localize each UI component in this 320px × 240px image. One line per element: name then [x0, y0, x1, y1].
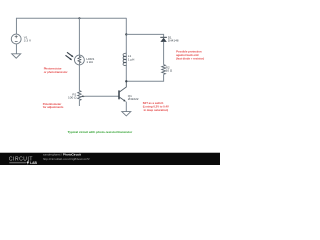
red note protection — [176, 50, 204, 61]
svg-text:xandergharst / PhotoCircuit: xandergharst / PhotoCircuit — [43, 153, 81, 157]
svg-text:Typical circuit with photo-res: Typical circuit with photo-resistor/tran… — [68, 130, 133, 134]
svg-text:in deep saturation): in deep saturation) — [144, 108, 169, 112]
label L1 value — [128, 54, 135, 61]
svg-text:or phototransistor: or phototransistor — [44, 70, 69, 74]
svg-text:3.3 V: 3.3 V — [24, 39, 32, 43]
red note potentiometer — [43, 102, 64, 109]
label LDR1 value — [86, 57, 94, 64]
svg-text:against back emf.: against back emf. — [176, 53, 199, 57]
svg-text:2N2222: 2N2222 — [128, 97, 139, 101]
svg-text:1 kΩ: 1 kΩ — [86, 60, 93, 64]
red note photoresistor — [44, 67, 69, 74]
wire V1 bottom stem — [15, 44, 17, 54]
svg-text:1 µH: 1 µH — [128, 57, 135, 61]
wire base — [85, 95, 119, 97]
red note BJT switch — [143, 101, 169, 112]
potentiometer R1 — [78, 91, 85, 101]
label D1 value — [168, 35, 179, 42]
svg-text:for adjustments: for adjustments — [43, 105, 64, 109]
wire V1 top stem — [15, 18, 17, 34]
svg-text:http://circuitlab.com/c/tg84vw: http://circuitlab.com/c/tg84vwnxm5/ — [43, 157, 90, 161]
inductor L1 — [123, 53, 126, 81]
label R2 value — [166, 66, 173, 73]
svg-text:BJT as a switch: BJT as a switch — [143, 101, 164, 105]
ground under Q1 emitter — [122, 112, 131, 116]
svg-text:1N4148: 1N4148 — [168, 38, 179, 42]
wire to diode — [126, 34, 163, 37]
node junction top rail / LDR branch — [78, 17, 80, 19]
CircuitLab logo — [9, 157, 38, 165]
wire LDR top stem — [78, 18, 80, 55]
diode D1 — [160, 37, 167, 42]
footer bar — [0, 151, 220, 154]
wire R1 bottom stub — [78, 100, 80, 106]
resistor R2 — [162, 65, 166, 75]
svg-text:100 Ω: 100 Ω — [68, 96, 77, 100]
transistor Q1 — [119, 81, 126, 111]
svg-text:LAB: LAB — [30, 161, 37, 165]
ground under V1 — [12, 54, 21, 58]
label Q1 value — [128, 94, 139, 101]
photoresistor LDR1 — [75, 55, 85, 65]
svg-text:(Losing 0.2V to 0.4V: (Losing 0.2V to 0.4V — [143, 105, 169, 109]
node junction collector / R2 — [125, 80, 127, 82]
svg-text:Possible protection: Possible protection — [176, 50, 202, 54]
label R1 value — [68, 92, 77, 99]
LDR light arrows — [66, 52, 74, 60]
label V1 value — [24, 35, 32, 42]
svg-text:Photoresistor: Photoresistor — [44, 67, 63, 71]
wire diode to R2 — [163, 42, 165, 65]
svg-text:10 Ω: 10 Ω — [166, 69, 173, 73]
svg-text:(fast diode + resistor): (fast diode + resistor) — [176, 57, 204, 61]
footer credit text — [43, 153, 90, 161]
wire top rail — [16, 17, 126, 19]
wire R2 bottom to collector node — [126, 74, 163, 81]
voltage source V1 — [11, 34, 21, 44]
wire LDR bottom stem — [78, 65, 80, 91]
node junction diode branch — [125, 33, 127, 35]
wire supply vertical — [125, 18, 127, 53]
